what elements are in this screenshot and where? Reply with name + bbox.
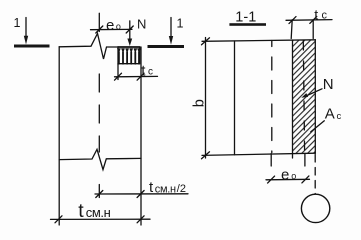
- N action dashed line through hatch: [303, 41, 304, 152]
- mid-wall break line: [59, 149, 141, 169]
- load N arrowhead: [127, 39, 132, 47]
- t_cm.n tick right: [137, 216, 144, 223]
- t_cm.n/2 tick right: [137, 191, 144, 198]
- t_cm.n/2 label: [149, 179, 186, 196]
- e_o (right) tick right: [302, 176, 309, 183]
- load block hatch bars and arrows: [119, 52, 139, 64]
- dimension t_c (right) extension left: [291, 20, 292, 39]
- N action extension below: [304, 154, 306, 167]
- svg-text:1-1: 1-1: [235, 9, 256, 25]
- svg-text:A: A: [325, 105, 335, 122]
- section inner face line: [234, 41, 236, 155]
- t_c (right) tick right: [310, 16, 317, 23]
- svg-text:c: c: [337, 111, 342, 122]
- svg-text:1: 1: [14, 16, 21, 30]
- svg-text:e: e: [281, 167, 289, 184]
- t_c label (left): [141, 63, 153, 80]
- section mark 1 right: bearing bar: [148, 45, 185, 48]
- dimension t_cm.n line: [51, 218, 151, 220]
- t_c (right) tick left: [289, 17, 296, 24]
- section mark 1 right: arrowhead: [169, 36, 173, 45]
- detail circle: [301, 194, 329, 222]
- load N arrow line: [129, 21, 131, 40]
- dimension t_c (left) line: [115, 75, 158, 77]
- N leader arrowhead: [301, 93, 308, 98]
- dimension t_c (right) extension right: [312, 20, 314, 39]
- svg-text:см.н: см.н: [86, 205, 111, 220]
- section rectangle left edge: [205, 38, 207, 159]
- svg-text:t: t: [314, 6, 318, 22]
- A_c label: [325, 105, 342, 122]
- t_cm.n/2 tick left: [96, 191, 103, 198]
- centerline above wall: [98, 13, 100, 31]
- wall left edge: [58, 47, 60, 225]
- section mark 1 left: arrow line: [25, 18, 27, 41]
- section centerline dashed: [271, 41, 273, 153]
- svg-text:1: 1: [177, 17, 184, 31]
- wall top edge with break zigzag: [59, 34, 118, 60]
- bearing load block outline: [118, 47, 140, 64]
- t_c (left) tick left: [115, 73, 122, 80]
- svg-text:e: e: [106, 17, 114, 34]
- dimension t_cm.n/2 line: [95, 193, 188, 195]
- dimension t_c (left) extension: [117, 64, 119, 80]
- hatch strip left edge: [292, 40, 294, 158]
- section mark 1 left: arrowhead: [24, 36, 28, 45]
- section rectangle bottom edge: [202, 153, 315, 155]
- e_o label (right): [281, 167, 296, 184]
- svg-text:c: c: [148, 66, 153, 77]
- A_c leader line: [311, 121, 325, 132]
- N leader line: [307, 89, 322, 96]
- wall centerline dashed: [98, 74, 100, 152]
- t_cm.n tick left: [55, 216, 62, 223]
- section mark 1 left: bearing bar: [14, 45, 50, 48]
- section rectangle top edge: [202, 40, 315, 42]
- t_cm.n label: [78, 200, 110, 222]
- e_o (right) tick left: [268, 176, 275, 183]
- svg-text:t: t: [78, 200, 84, 222]
- dimension e_o (right) line: [266, 178, 310, 181]
- dimension t_c (right) line: [286, 19, 332, 22]
- t_c (left) tick right: [137, 73, 144, 80]
- bearing area A_c hatched strip: [293, 40, 316, 153]
- svg-text:c: c: [322, 10, 328, 22]
- wall right edge: [140, 47, 142, 225]
- b dimension tick bottom: [202, 152, 210, 159]
- wall centerline below break: [98, 185, 100, 198]
- e_o label (left figure): [106, 17, 121, 34]
- hatch strip right edge: [314, 40, 316, 154]
- svg-text:см.н: см.н: [155, 183, 176, 195]
- b dimension tick top: [202, 38, 210, 45]
- section mark 1 right: arrow line: [170, 18, 172, 41]
- svg-text:o: o: [116, 21, 121, 31]
- e_o tick right: [126, 26, 133, 33]
- bearing load block top edge: [118, 46, 140, 48]
- svg-text:N: N: [323, 76, 334, 93]
- title underline bar: [229, 23, 266, 26]
- svg-text:N: N: [137, 16, 146, 31]
- svg-text:o: o: [291, 171, 296, 181]
- detail leader dashed to circle: [314, 155, 316, 195]
- centerline extension below: [270, 154, 272, 167]
- dimension e_o (left figure) line: [91, 28, 133, 30]
- svg-text:/2: /2: [177, 183, 186, 195]
- svg-text:b: b: [191, 99, 207, 107]
- e_o tick left: [96, 26, 103, 33]
- t_c label (right): [314, 6, 327, 22]
